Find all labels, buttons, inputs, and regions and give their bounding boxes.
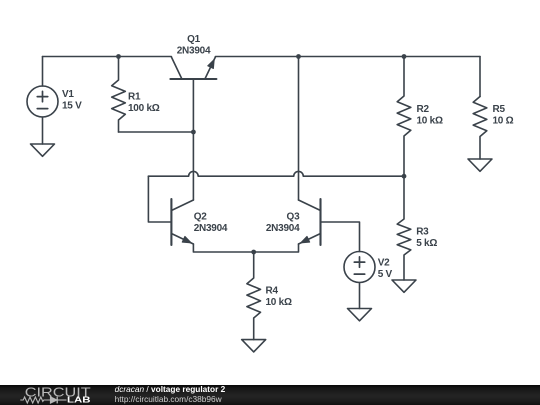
ground under V2 [348, 309, 372, 321]
svg-text:R2: R2 [417, 104, 430, 115]
CircuitLab logo [0, 385, 110, 405]
svg-text:R1: R1 [128, 91, 141, 102]
footer bar [0, 385, 540, 405]
svg-text:2N3904: 2N3904 [177, 46, 211, 57]
svg-text:10 kΩ: 10 kΩ [266, 297, 292, 308]
label R4 10 k [266, 286, 292, 309]
label Q1 2N3904 [177, 34, 211, 56]
label R3 5 k [416, 227, 437, 250]
ground under V1 [31, 144, 55, 156]
svg-text:V1: V1 [62, 89, 74, 100]
voltage source V2 [344, 252, 375, 309]
node: junction dot R1/Q1 base [191, 130, 196, 135]
ground under R3 [392, 280, 416, 292]
wire: top supply rail right segment [215, 56, 480, 58]
wire: Q1 base down to Q2 collector [192, 79, 194, 200]
wire: top supply rail left segment [43, 56, 172, 58]
resistor R4 [247, 252, 261, 340]
wire: loop down to Q2 base [148, 176, 171, 222]
wire: common emitters [193, 244, 298, 252]
transistor Q1 2N3904 [170, 57, 216, 79]
label V1 15 V [62, 89, 82, 112]
node: junction dot emitters/R4 [251, 250, 256, 255]
resistor R1 [112, 57, 126, 133]
svg-text:100 kΩ: 100 kΩ [128, 103, 160, 114]
svg-text:V2: V2 [378, 257, 390, 268]
label R5 10 Ohm [493, 104, 514, 127]
svg-text:15 V: 15 V [62, 101, 82, 112]
ground under R5 [468, 159, 492, 171]
label V2 5 V [378, 257, 393, 280]
resistor R5 [473, 57, 487, 160]
svg-text:2N3904: 2N3904 [194, 223, 228, 234]
svg-text:10 Ω: 10 Ω [493, 116, 514, 127]
label R1 100 k [128, 91, 160, 114]
resistor R2 [397, 57, 411, 177]
wire: Q3 collector up to rail [298, 57, 300, 201]
label Q2 2N3904 [194, 212, 228, 235]
svg-text:R5: R5 [493, 104, 506, 115]
svg-text:5 kΩ: 5 kΩ [416, 238, 437, 249]
node: junction dot rail/R1 [116, 54, 121, 59]
wire: feedback with hops (Q2 base to R2/R3 node) [148, 171, 404, 176]
transistor Q3 2N3904 [299, 199, 321, 245]
node: junction dot feedback/R2/R3 [402, 174, 407, 179]
resistor R3 [397, 176, 411, 280]
label Q3 2N3904 [266, 212, 300, 235]
node: junction dot rail/Q3 collector [296, 54, 301, 59]
svg-text:10 kΩ: 10 kΩ [417, 116, 443, 127]
svg-text:2N3904: 2N3904 [266, 223, 300, 234]
svg-text:R4: R4 [266, 286, 279, 297]
voltage source V1 [27, 57, 58, 145]
svg-text:R3: R3 [416, 227, 429, 238]
node: junction dot rail/R2 [402, 54, 407, 59]
label R2 10 k [417, 104, 443, 127]
ground under R4 [242, 340, 266, 352]
svg-text:Q1: Q1 [187, 34, 201, 45]
svg-text:Q3: Q3 [287, 212, 301, 223]
svg-text:5 V: 5 V [378, 269, 393, 280]
wire: R1 bottom to Q1 base [119, 131, 194, 133]
transistor Q2 2N3904 [171, 199, 193, 245]
wire: Q3 base to V2 [321, 222, 360, 252]
svg-text:Q2: Q2 [194, 212, 208, 223]
svg-text:LAB: LAB [67, 395, 91, 404]
